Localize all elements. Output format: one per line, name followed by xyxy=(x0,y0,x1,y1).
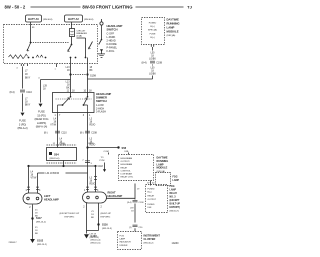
left low beam wire xyxy=(28,166,30,191)
svg-text:(8W-A-14): (8W-A-14) xyxy=(36,126,48,129)
svg-text:3 (PD): 3 (PD) xyxy=(19,123,26,126)
svg-text:COM: COM xyxy=(104,151,109,153)
svg-text:S198: S198 xyxy=(90,75,96,78)
wire L4 low beam xyxy=(57,113,59,148)
DRL module lower box xyxy=(119,155,154,181)
svg-text:(8W-30-8): (8W-30-8) xyxy=(43,19,53,21)
svg-text:B(+): B(+) xyxy=(148,192,152,194)
PCM stub xyxy=(100,157,105,162)
DRL lower pins xyxy=(104,151,130,153)
svg-text:FUSED: FUSED xyxy=(148,204,156,206)
svg-text:C110: C110 xyxy=(26,91,32,94)
svg-text:HEADLAMP: HEADLAMP xyxy=(96,92,111,96)
headlamp dimmer switch box xyxy=(53,93,95,113)
svg-text:L39 18: L39 18 xyxy=(90,234,97,236)
svg-text:C198: C198 xyxy=(156,62,162,65)
svg-text:(8-): (8-) xyxy=(80,133,84,135)
svg-text:CONTROL: CONTROL xyxy=(121,170,132,172)
fog lamp relay box xyxy=(146,185,168,213)
right headlamp ground wires xyxy=(87,203,99,234)
high beam bus xyxy=(38,173,88,191)
svg-text:DIMMER: DIMMER xyxy=(96,96,107,100)
svg-text:BK: BK xyxy=(90,70,94,72)
svg-text:CLUSTER: CLUSTER xyxy=(144,238,156,241)
svg-text:IGN: IGN xyxy=(148,207,152,209)
head contact riser xyxy=(77,38,86,58)
headlamp switch box xyxy=(4,25,98,64)
svg-text:FUSE: FUSE xyxy=(38,111,45,114)
headlamp switch pigtail lamp xyxy=(101,19,103,22)
svg-text:RD/O: RD/O xyxy=(90,184,96,186)
headlamp switch position list xyxy=(107,32,118,53)
svg-text:BK/Y: BK/Y xyxy=(25,105,31,107)
svg-text:(8-4): (8-4) xyxy=(10,91,15,94)
wire A0 to headlamp switch xyxy=(30,22,32,43)
wire splice to dimmer xyxy=(87,58,89,93)
svg-text:S04: S04 xyxy=(54,153,59,157)
wire breaker to contact xyxy=(71,37,73,45)
dimmer contacts xyxy=(56,98,92,100)
header rule left xyxy=(31,6,81,8)
svg-text:RELAY CTRL: RELAY CTRL xyxy=(121,176,134,179)
svg-text:(DRL)(A): (DRL)(A) xyxy=(167,34,176,37)
svg-text:3-FLASH: 3-FLASH xyxy=(96,111,106,114)
svg-text:HEADLAMP: HEADLAMP xyxy=(44,197,59,201)
svg-text:(8W-40-2): (8W-40-2) xyxy=(144,242,154,244)
svg-text:(EXCEPT BUILT-UP: (EXCEPT BUILT-UP xyxy=(60,213,80,215)
svg-text:LG/BK: LG/BK xyxy=(149,74,156,76)
rheostat (panel dimmer) xyxy=(9,55,26,59)
header title left xyxy=(5,5,26,10)
svg-text:B(+): B(+) xyxy=(150,37,154,39)
svg-text:(8W-A-2): (8W-A-2) xyxy=(17,127,27,130)
svg-text:RIGHT: RIGHT xyxy=(108,191,116,195)
arrow to fuse 15 xyxy=(39,104,43,107)
switch wiper arm xyxy=(27,43,31,51)
svg-text:HEADLAMP: HEADLAMP xyxy=(108,194,123,198)
svg-text:LEFT: LEFT xyxy=(44,194,51,198)
svg-text:LAMPS): LAMPS) xyxy=(37,122,46,125)
svg-text:FOG: FOG xyxy=(173,177,178,179)
right lamp pin 3 wire xyxy=(95,166,97,192)
svg-text:B(+): B(+) xyxy=(150,26,154,28)
svg-text:RELAY: RELAY xyxy=(148,195,155,198)
svg-text:INDICATOR: INDICATOR xyxy=(120,241,132,244)
wiper link dashed xyxy=(31,42,69,44)
sheet number bottom left xyxy=(9,242,18,244)
svg-text:BK/R: BK/R xyxy=(89,143,95,145)
svg-text:(BUILT-UP: (BUILT-UP xyxy=(101,213,112,215)
circuit breaker xyxy=(70,29,75,37)
svg-text:C198: C198 xyxy=(91,133,97,135)
low beam bus C118 xyxy=(29,165,96,167)
DRL module label xyxy=(167,17,180,33)
svg-text:VT/W: VT/W xyxy=(50,125,57,127)
svg-text:BUILT-UP: BUILT-UP xyxy=(170,204,181,206)
svg-text:S116: S116 xyxy=(102,224,108,227)
svg-text:FUSE: FUSE xyxy=(19,120,26,123)
svg-text:(EXCEPT: (EXCEPT xyxy=(170,200,181,202)
connector C198 xyxy=(133,200,138,202)
svg-text:TO: TO xyxy=(101,157,104,159)
dome contact arm xyxy=(89,42,93,50)
svg-text:G102: G102 xyxy=(37,240,44,243)
relay pin stub xyxy=(150,181,152,186)
spare switch pins xyxy=(56,64,58,68)
svg-text:OUTPUT: OUTPUT xyxy=(148,199,157,201)
svg-text:(8W-15-4): (8W-15-4) xyxy=(91,240,101,242)
arrow to fuse 3 xyxy=(21,113,25,116)
connector C20 xyxy=(133,225,138,227)
connector C110 xyxy=(20,90,25,92)
svg-text:SWITCH: SWITCH xyxy=(107,28,118,32)
label 8W-30-8 xyxy=(43,19,53,21)
svg-text:OUTPUT/: OUTPUT/ xyxy=(121,161,131,163)
svg-text:LAMP: LAMP xyxy=(170,189,177,192)
svg-text:S58: S58 xyxy=(122,146,127,150)
svg-text:BATT A0: BATT A0 xyxy=(28,17,39,21)
svg-text:C198: C198 xyxy=(60,143,66,145)
fuse feed BATT A0 xyxy=(26,15,42,22)
svg-text:SPECIAL: SPECIAL xyxy=(148,29,158,32)
instrument cluster box xyxy=(118,232,142,250)
svg-text:BATT A2: BATT A2 xyxy=(68,17,79,21)
figure number bottom right xyxy=(172,242,180,245)
svg-text:LG/BK: LG/BK xyxy=(149,59,156,61)
svg-text:RELAY: RELAY xyxy=(121,166,128,169)
svg-text:15 (PD): 15 (PD) xyxy=(37,114,46,117)
splice S116 xyxy=(97,223,99,225)
svg-text:BK: BK xyxy=(66,88,70,90)
svg-text:(8W-30-8): (8W-30-8) xyxy=(84,19,94,21)
svg-text:LAMP: LAMP xyxy=(173,179,180,182)
svg-text:(8W-15-3): (8W-15-3) xyxy=(102,228,112,230)
switch case ground xyxy=(101,25,103,39)
dimmer switch label xyxy=(96,92,111,103)
right headlamp xyxy=(83,192,107,203)
ground G102 xyxy=(30,239,35,243)
wire A2 to circuit breaker xyxy=(71,22,73,29)
svg-text:C110: C110 xyxy=(61,133,67,135)
svg-text:HIGH BEAM: HIGH BEAM xyxy=(121,157,133,160)
svg-text:(1): (1) xyxy=(129,227,132,229)
svg-text:8W - 50 - 2: 8W - 50 - 2 xyxy=(5,5,26,10)
fog lamp relay label xyxy=(170,186,181,209)
svg-text:HIGH BEAM: HIGH BEAM xyxy=(121,163,133,166)
svg-text:LOW BEAM: LOW BEAM xyxy=(121,173,132,176)
svg-text:(8W-15-2): (8W-15-2) xyxy=(36,221,46,223)
connector C198 xyxy=(150,61,155,63)
label left of cluster xyxy=(90,234,100,239)
instrument cluster label xyxy=(144,235,161,245)
headlamp switch label xyxy=(107,24,123,32)
left headlamp ground wire xyxy=(32,205,34,240)
fuse feed BATT A2 xyxy=(65,15,83,22)
svg-text:FUSED: FUSED xyxy=(149,23,157,25)
svg-text:RD/O: RD/O xyxy=(90,125,96,127)
ground G103 xyxy=(84,234,89,238)
svg-text:(8-4): (8-4) xyxy=(127,202,132,204)
svg-text:(8W-15-6): (8W-15-6) xyxy=(50,158,60,160)
wire S04 to bus xyxy=(63,161,65,167)
header rule right xyxy=(136,6,184,8)
svg-text:BREAKER: BREAKER xyxy=(77,32,88,35)
svg-text:1A060: 1A060 xyxy=(172,242,180,245)
left headlamp xyxy=(23,193,42,204)
wire to PDC fuse 15 xyxy=(40,80,42,103)
svg-text:EXPORT): EXPORT) xyxy=(101,216,111,218)
svg-text:EXPORT): EXPORT) xyxy=(170,207,180,209)
svg-text:TJ: TJ xyxy=(187,5,192,10)
svg-text:FOG: FOG xyxy=(170,186,175,188)
svg-text:MODULE: MODULE xyxy=(157,167,168,170)
DRL lower label xyxy=(157,157,169,170)
pin marks under switch xyxy=(21,64,27,66)
svg-text:S117: S117 xyxy=(36,217,42,220)
wire L13 switch to dimmer xyxy=(70,58,72,93)
svg-text:8W-50 FRONT LIGHTING: 8W-50 FRONT LIGHTING xyxy=(82,5,133,10)
wire to splice S58 xyxy=(86,146,88,148)
DRL module upper box xyxy=(142,18,165,45)
label 8W-30-8 xyxy=(84,19,94,21)
svg-text:C118: C118 xyxy=(98,166,104,168)
svg-text:RELAY: RELAY xyxy=(170,192,178,195)
to S04 marker box xyxy=(47,144,77,146)
svg-text:(8-): (8-) xyxy=(44,133,48,135)
header title center xyxy=(82,5,133,10)
svg-text:LAMP: LAMP xyxy=(120,238,126,241)
svg-text:MODULE: MODULE xyxy=(167,29,179,33)
wire from right headlamp to indicator xyxy=(107,197,136,199)
svg-text:SWITCH: SWITCH xyxy=(96,99,107,103)
svg-text:(8-4): (8-4) xyxy=(142,62,147,65)
splice S117 xyxy=(31,217,33,219)
wire L3 high beam xyxy=(87,113,89,193)
svg-text:VT/W: VT/W xyxy=(31,178,38,180)
connector on high beam wire xyxy=(85,161,90,163)
wire L50 DRL xyxy=(151,45,153,47)
svg-text:NO. 3: NO. 3 xyxy=(170,197,177,199)
wire branch to splice xyxy=(41,79,71,81)
svg-text:(8W-50-3): (8W-50-3) xyxy=(90,237,100,239)
header page code TJ xyxy=(187,5,192,10)
svg-text:DRIVER: DRIVER xyxy=(120,245,128,247)
svg-text:29W017: 29W017 xyxy=(9,242,18,244)
switch contacts row xyxy=(28,57,47,59)
svg-text:EXPORT): EXPORT) xyxy=(65,216,75,218)
svg-text:C198: C198 xyxy=(139,202,145,204)
wire labels left lamp xyxy=(31,172,38,180)
splice S198 xyxy=(69,73,88,75)
svg-text:(REAR FOG: (REAR FOG xyxy=(35,118,49,121)
svg-text:FOG: FOG xyxy=(120,236,125,238)
svg-text:(15A): (15A) xyxy=(77,35,83,38)
wire L7 to PDC fuse 3 xyxy=(22,67,24,89)
svg-text:L34 18 BK/W: L34 18 BK/W xyxy=(46,173,60,175)
fog lamp sub box xyxy=(156,173,171,186)
svg-text:PCM: PCM xyxy=(100,160,105,162)
wire DRL feed xyxy=(88,78,153,80)
svg-text:F-FOG: F-FOG xyxy=(107,50,115,53)
svg-text:FUSE: FUSE xyxy=(150,33,156,35)
svg-text:(8W-15-2): (8W-15-2) xyxy=(37,244,47,246)
svg-text:BK/Y: BK/Y xyxy=(25,78,31,80)
svg-text:FUSED: FUSED xyxy=(148,189,156,191)
fog indicator wire from DRL xyxy=(134,184,136,200)
svg-text:(8W-50-7): (8W-50-7) xyxy=(170,211,180,213)
svg-text:(8W-15-5): (8W-15-5) xyxy=(91,243,101,245)
